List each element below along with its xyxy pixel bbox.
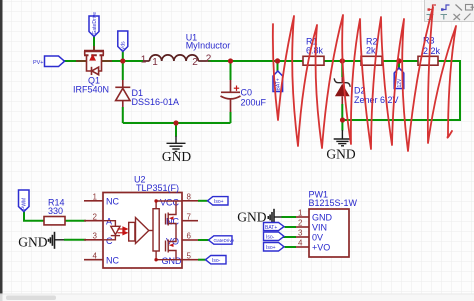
resistor R14	[44, 217, 65, 225]
wire D2 top	[341, 61, 343, 77]
toolbar icon port2	[441, 15, 448, 20]
U2 pin 7	[166, 212, 198, 226]
Q1 substrate arrow	[89, 54, 96, 61]
svg-text:2: 2	[206, 54, 212, 65]
svg-text:6: 6	[187, 232, 192, 241]
toolbar icon line	[456, 5, 463, 11]
U2 internal opto arrows	[118, 227, 128, 234]
PW1 pin 1	[296, 209, 333, 223]
svg-text:Iso+: Iso+	[214, 199, 224, 205]
port flag Iso+ (U2 pin 8)	[208, 197, 229, 205]
svg-text:7: 7	[187, 212, 192, 221]
junction node C0 top	[228, 58, 233, 63]
svg-text:8: 8	[187, 193, 192, 202]
toolbar icon place-bus	[443, 5, 450, 10]
wire R3 to right loop	[343, 61, 461, 120]
port flag BAT+ (below rail)	[273, 71, 283, 92]
U2 internal VCC rail	[156, 201, 182, 209]
svg-text:Iso-: Iso-	[212, 258, 221, 264]
svg-text:200uF: 200uF	[241, 98, 267, 108]
svg-text:GND: GND	[18, 235, 47, 250]
resistor R1	[303, 56, 324, 65]
inductor U1	[143, 55, 208, 61]
wire gnd to U2 pin3	[64, 239, 86, 241]
wire Q1 drain to node SW	[102, 60, 143, 62]
svg-text:Iso+: Iso+	[266, 245, 276, 251]
svg-text:1: 1	[298, 209, 303, 218]
svg-text:NC: NC	[106, 256, 119, 266]
wire U2 pin6 to GateDrive flag	[198, 239, 209, 241]
wire C0 top	[230, 61, 232, 80]
wire D2 bottom	[341, 104, 343, 120]
svg-text:PV+: PV+	[33, 60, 44, 66]
svg-text:2: 2	[192, 57, 198, 68]
svg-text:B1215S-1W: B1215S-1W	[309, 198, 358, 208]
transistor Q1	[76, 46, 112, 75]
resistor R2	[361, 56, 382, 65]
svg-text:C0: C0	[241, 88, 253, 98]
wire U2 pin8 to Iso+ flag	[198, 200, 208, 202]
ground GND4 (PW1 pin1, sideways)	[268, 209, 281, 226]
wire gate flag to Q1 gate	[93, 37, 95, 51]
junction node BAT+	[275, 58, 280, 63]
junction node D2 bottom	[340, 117, 345, 122]
U2 internal GND rail	[156, 251, 182, 260]
U2 pin 8	[160, 193, 198, 208]
svg-text:GND: GND	[162, 256, 183, 266]
U2 internal LED	[103, 221, 120, 240]
left window edge bar	[0, 0, 3, 295]
svg-text:+VO: +VO	[312, 243, 330, 253]
ground GND1 (buck output)	[175, 123, 177, 137]
bottom scrollbar	[0, 294, 474, 301]
capacitor C0	[221, 80, 241, 112]
port flag GateDrive (above Q1)	[89, 12, 99, 37]
junction node SW	[120, 58, 125, 63]
port flag GateDrive (U2 pin 6)	[209, 236, 235, 244]
wire C0 bottom	[230, 112, 232, 123]
svg-text:DSS16-01A: DSS16-01A	[132, 97, 180, 107]
U2 pin 6	[166, 232, 198, 247]
port flag PWM (left)	[19, 190, 30, 212]
toolbar icon place-wire	[430, 5, 437, 10]
svg-text:1: 1	[141, 55, 147, 66]
PW1 pin 3	[296, 229, 323, 243]
svg-text:A: A	[106, 217, 112, 227]
wire Iso- flag to PW1 pin3	[283, 236, 296, 238]
svg-text:C: C	[106, 236, 113, 246]
svg-text:330: 330	[48, 206, 63, 216]
svg-text:NC: NC	[106, 196, 119, 206]
svg-text:Iso-: Iso-	[266, 235, 275, 241]
svg-text:1: 1	[152, 57, 158, 68]
IC U2 optocoupler TLP351(F)	[103, 193, 182, 269]
PW1 pin 4	[296, 239, 330, 253]
U2 pin 4	[84, 251, 119, 265]
junction node GND rail	[173, 120, 178, 125]
zener diode D2	[334, 78, 350, 86]
U2 pin 1	[84, 193, 119, 207]
U2 pin 3	[84, 232, 113, 246]
port flag Iso- (PW1 pin3)	[264, 232, 285, 241]
wire BAT+ flag to PW1 pin2	[285, 226, 297, 228]
wire D1 top	[122, 61, 124, 80]
module PW1 B1215S-1W	[309, 209, 349, 257]
svg-text:GateDrive: GateDrive	[214, 238, 235, 243]
wire R1 to R2	[324, 60, 361, 62]
svg-text:2k: 2k	[366, 46, 376, 56]
wire inductor to R1	[208, 60, 303, 62]
svg-text:PWM: PWM	[22, 198, 28, 210]
svg-text:GND: GND	[312, 213, 333, 223]
U2 pin 5	[162, 251, 199, 266]
svg-text:IRF540N: IRF540N	[73, 85, 109, 95]
wire BAT+ flag stem	[277, 61, 279, 71]
svg-text:2: 2	[298, 219, 303, 228]
svg-text:VIN: VIN	[312, 223, 327, 233]
svg-text:Zener 6.2V: Zener 6.2V	[354, 95, 399, 105]
wire SW flag stem	[122, 52, 124, 62]
wire bottom gnd rail	[123, 122, 231, 124]
port flag SW node (above junction)	[118, 31, 128, 52]
wire D1 bottom	[122, 107, 124, 123]
floating toolbar (top right)	[425, 0, 474, 22]
diode D1	[115, 80, 130, 107]
wire PV+ to Q1	[64, 60, 86, 62]
red scribble annotation	[273, 7, 456, 151]
port PV+	[33, 56, 65, 67]
svg-text:1: 1	[93, 193, 98, 202]
junction node D2 top	[340, 58, 345, 63]
svg-text:TLP351(F): TLP351(F)	[136, 183, 179, 193]
svg-text:MyInductor: MyInductor	[186, 41, 231, 51]
wire R2 to R3	[382, 60, 418, 62]
toolbar icon port1	[427, 15, 434, 20]
svg-text:GND: GND	[237, 209, 266, 224]
toolbar icon sheet	[466, 5, 473, 11]
svg-text:4: 4	[298, 239, 303, 248]
port flag Vout (below rail, right)	[394, 68, 404, 89]
port flag BAT+ (PW1 pin2)	[264, 223, 285, 231]
toolbar icon pen	[464, 14, 471, 21]
wire gnd to PW1 pin1	[282, 216, 297, 218]
PW1 pin 2	[296, 219, 327, 233]
svg-text:3: 3	[93, 232, 98, 241]
wire node flag stem right	[398, 61, 400, 68]
ground GND2 (zener)	[341, 120, 343, 131]
C0 plus sign	[234, 86, 239, 91]
junction node R2-R3	[396, 58, 401, 63]
svg-text:GND: GND	[326, 146, 355, 161]
resistor R3	[418, 56, 438, 65]
svg-text:GND: GND	[162, 149, 191, 164]
svg-text:BAT+: BAT+	[265, 225, 277, 231]
U2 internal upper transistor	[166, 201, 177, 230]
svg-text:4: 4	[93, 251, 98, 260]
U2 internal output stage bar	[153, 209, 159, 251]
U2 pin 2	[84, 212, 112, 226]
wire PWM flag to R14	[24, 212, 44, 221]
svg-text:2.2k: 2.2k	[423, 46, 441, 56]
svg-text:GateDrive: GateDrive	[92, 12, 98, 35]
toolbar icon x	[454, 14, 461, 20]
U2 internal lower transistor	[166, 230, 177, 260]
ground GND3 (U2 pin3, sideways)	[49, 232, 65, 249]
U2 internal receiver/amp	[129, 218, 153, 244]
svg-text:5: 5	[187, 251, 192, 260]
svg-text:0V: 0V	[312, 233, 323, 243]
wire U2 pin5 to Iso- flag	[198, 259, 206, 261]
svg-text:Vds: Vds	[121, 41, 127, 50]
port flag Iso- (U2 pin 5)	[206, 256, 227, 265]
wire R14 to U2 pin2	[65, 220, 86, 222]
svg-text:3: 3	[298, 229, 303, 238]
wire Iso+ flag to PW1 pin4	[285, 246, 297, 248]
port flag Iso+ (PW1 pin4)	[264, 243, 285, 252]
svg-text:2: 2	[93, 212, 98, 221]
